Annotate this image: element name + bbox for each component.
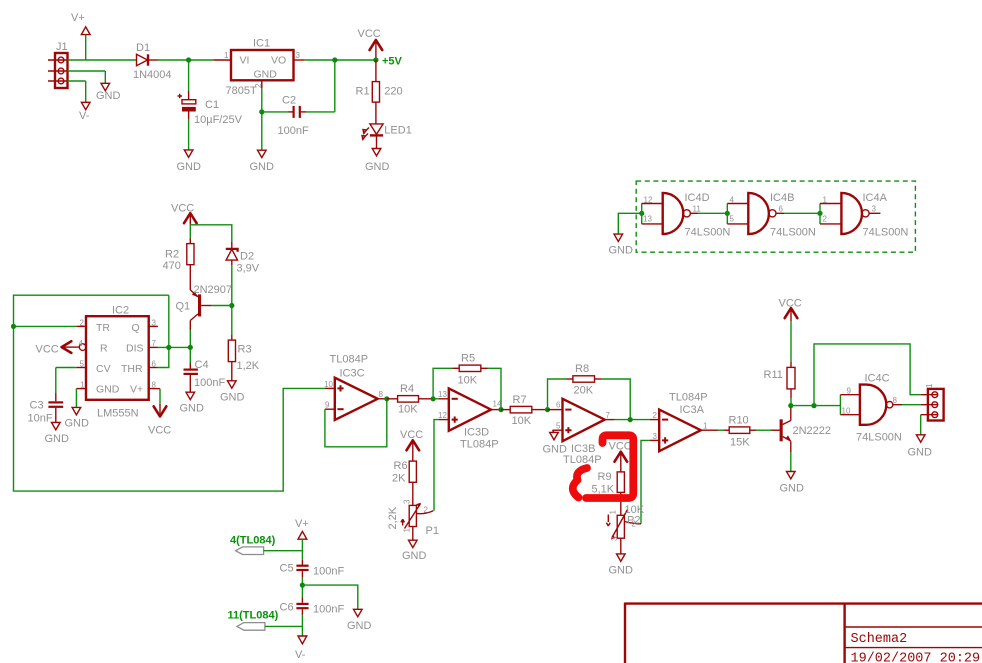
ground GND bottom mid: [347, 609, 372, 632]
svg-text:15K: 15K: [730, 437, 750, 449]
ground GND under C1: [177, 150, 202, 173]
wire IC1 output to +5V node: [305, 59, 376, 61]
svg-text:C3: C3: [30, 400, 44, 412]
svg-text:7: 7: [152, 339, 157, 348]
svg-text:100nF: 100nF: [313, 604, 344, 616]
node junction loop tap: [811, 403, 816, 408]
svg-text:IC2: IC2: [112, 305, 129, 317]
svg-text:TR: TR: [96, 322, 110, 334]
svg-text:V+: V+: [71, 12, 85, 24]
svg-text:9: 9: [847, 387, 852, 396]
resistor R5 10K feedback: [433, 353, 501, 410]
svg-text:8: 8: [152, 381, 157, 390]
svg-text:GND: GND: [96, 383, 120, 395]
svg-text:GND: GND: [250, 161, 275, 173]
svg-text:GND: GND: [254, 69, 278, 81]
svg-text:VO: VO: [271, 55, 286, 67]
potentiometer P1 2,2K: [387, 499, 439, 540]
svg-text:3: 3: [152, 319, 157, 328]
ground GND at connector pin3: [908, 415, 933, 459]
svg-text:IC4A: IC4A: [863, 192, 888, 204]
svg-text:THR: THR: [121, 363, 143, 375]
svg-text:6: 6: [779, 205, 784, 214]
resistor R10 15K: [711, 415, 780, 449]
capacitor C6 100nF: [280, 585, 345, 636]
resistor R2 470: [163, 239, 195, 290]
svg-text:GND: GND: [365, 161, 390, 173]
svg-text:GND: GND: [180, 403, 205, 415]
wire IC4D output to IC4B: [698, 212, 727, 214]
svg-text:3: 3: [296, 51, 301, 60]
svg-text:4: 4: [79, 339, 84, 348]
node junction C5/C6: [300, 583, 305, 588]
svg-text:74LS00N: 74LS00N: [770, 227, 816, 239]
op-amp IC3C TL084P: [324, 354, 387, 420]
wire V+ rail: [301, 539, 303, 560]
svg-text:C2: C2: [282, 95, 296, 107]
resistor R6 2K: [392, 460, 416, 505]
svg-text:IC4B: IC4B: [770, 192, 794, 204]
svg-text:10K: 10K: [398, 404, 418, 416]
svg-text:VCC: VCC: [358, 28, 381, 40]
svg-text:R9: R9: [598, 471, 612, 483]
wire D2 to base node and R3: [231, 265, 233, 335]
svg-text:R3: R3: [238, 344, 252, 356]
svg-text:V-: V-: [79, 110, 90, 122]
svg-text:6: 6: [556, 401, 561, 410]
node junction C2 riser: [332, 57, 337, 62]
svg-text:2: 2: [424, 506, 429, 515]
svg-text:3: 3: [610, 536, 619, 541]
svg-text:Schema2: Schema2: [851, 632, 908, 647]
svg-text:13: 13: [438, 390, 447, 399]
node junction R4/R5/pin13: [431, 396, 436, 401]
svg-text:V-: V-: [295, 649, 306, 661]
svg-text:10: 10: [324, 380, 333, 389]
node junction base of Q1: [229, 303, 234, 308]
svg-text:4: 4: [730, 196, 735, 205]
resistor R3 1,2K: [228, 335, 259, 381]
svg-text:74LS00N: 74LS00N: [856, 432, 902, 444]
wire pin1 J1 to V+ and D1: [68, 35, 137, 60]
dashed net class box: [636, 181, 915, 252]
node junction IC4B inputs: [725, 211, 730, 216]
svg-text:Q: Q: [132, 322, 140, 334]
supply VCC above R6: [400, 429, 423, 461]
svg-text:GND: GND: [402, 550, 427, 562]
svg-text:GND: GND: [45, 433, 70, 445]
svg-text:IC3C: IC3C: [340, 368, 365, 380]
svg-text:3: 3: [403, 499, 412, 504]
label flag 4(TL084): [230, 535, 302, 555]
svg-text:IC3A: IC3A: [680, 404, 705, 416]
svg-text:2K: 2K: [392, 473, 406, 485]
svg-text:10µF/25V: 10µF/25V: [194, 114, 243, 126]
svg-text:11: 11: [693, 205, 702, 214]
svg-text:7: 7: [606, 411, 611, 420]
svg-text:GND: GND: [96, 90, 121, 102]
svg-text:IC4D: IC4D: [685, 192, 710, 204]
svg-text:R10: R10: [729, 415, 749, 427]
svg-text:GND: GND: [780, 483, 805, 495]
svg-text:5,1K: 5,1K: [592, 484, 615, 496]
capacitor C3 10nF: [28, 393, 64, 425]
svg-text:LED1: LED1: [384, 125, 412, 137]
wire mid node to GND: [302, 585, 357, 609]
svg-text:R6: R6: [394, 460, 408, 472]
node junction IC4A inputs: [817, 211, 822, 216]
capacitor C1 10uF/25V: [178, 60, 243, 150]
svg-text:C5: C5: [280, 563, 294, 575]
wire net loop left (TR feedback): [14, 295, 325, 491]
svg-text:1: 1: [224, 51, 229, 60]
svg-text:R1: R1: [356, 86, 370, 98]
ground GND under Q2 emitter: [780, 472, 805, 495]
svg-text:11(TL084): 11(TL084): [228, 610, 279, 622]
transistor Q1 2N2907: [176, 284, 233, 330]
red marker annotation around R9: [573, 435, 634, 498]
svg-text:5: 5: [556, 422, 561, 431]
svg-text:GND: GND: [609, 565, 634, 577]
svg-text:3,9V: 3,9V: [237, 263, 260, 275]
svg-text:3: 3: [653, 432, 658, 441]
svg-text:D2: D2: [240, 251, 254, 263]
svg-text:R5: R5: [461, 353, 475, 365]
svg-text:100nF: 100nF: [278, 125, 309, 137]
svg-text:Q1: Q1: [176, 301, 191, 313]
svg-text:10K: 10K: [458, 375, 478, 387]
capacitor C5 100nF: [280, 560, 345, 585]
wire IC3A pin3 to P2 wiper: [641, 440, 650, 523]
resistor R11: [764, 321, 796, 406]
svg-text:1: 1: [925, 383, 934, 388]
timer IC2 LM555N: [76, 305, 160, 420]
wire THR riser: [158, 295, 169, 367]
wire CV to C3: [56, 368, 77, 394]
wire collector node to IC4C inputs: [791, 395, 841, 415]
nand gate IC4C 74LS00N: [840, 373, 902, 444]
resistor R8 20K feedback: [548, 363, 631, 420]
svg-text:LM555N: LM555N: [97, 408, 139, 420]
svg-text:TL084P: TL084P: [669, 392, 708, 404]
supply VCC at +5V: [358, 28, 383, 59]
wire IC1 pin2 down to C2 node: [261, 89, 263, 150]
svg-text:4(TL084): 4(TL084): [230, 535, 276, 547]
node junction IC4D inputs: [639, 211, 644, 216]
node junction IC3C output: [384, 396, 389, 401]
svg-text:5: 5: [730, 215, 735, 224]
svg-text:1: 1: [703, 422, 708, 431]
svg-text:C6: C6: [280, 602, 294, 614]
svg-text:1: 1: [80, 381, 85, 390]
ground GND under IC1: [250, 150, 275, 173]
svg-text:C1: C1: [205, 99, 219, 111]
wire IC3B output to IC3A pin2: [614, 419, 650, 421]
supply VCC above R11: [779, 298, 802, 322]
svg-text:1: 1: [609, 510, 618, 515]
svg-text:DIS: DIS: [126, 342, 144, 354]
node junction IC3B output/R8: [628, 417, 633, 422]
svg-text:GND: GND: [220, 392, 245, 404]
potentiometer P2 10K: [606, 504, 644, 554]
capacitor C2 100nF: [262, 60, 335, 137]
op-amp IC3D TL084P: [438, 388, 502, 450]
supply V+: [71, 12, 90, 35]
svg-text:2N2907: 2N2907: [194, 284, 233, 296]
svg-text:13: 13: [643, 215, 652, 224]
ground GND at IC2 pin1: [65, 389, 90, 430]
svg-text:R11: R11: [764, 369, 783, 381]
node junction TR tap: [11, 324, 16, 329]
wire VCC to R2 and D2: [190, 225, 232, 243]
svg-text:9: 9: [325, 401, 330, 410]
connector J1: [48, 41, 68, 88]
ground GND under R3: [220, 381, 245, 404]
svg-text:1: 1: [823, 196, 828, 205]
op-amp IC3A TL084P: [650, 392, 711, 452]
ground GND J1 pin2: [68, 71, 121, 102]
svg-text:VCC: VCC: [400, 429, 423, 441]
svg-text:1: 1: [403, 528, 412, 533]
svg-text:P1: P1: [426, 525, 439, 537]
svg-text:CV: CV: [96, 363, 111, 375]
svg-text:8: 8: [893, 396, 898, 405]
diode D1 1N4004: [133, 42, 172, 81]
svg-text:2N2222: 2N2222: [793, 425, 832, 437]
svg-text:5: 5: [80, 360, 85, 369]
svg-text:IC1: IC1: [253, 38, 270, 50]
wire DIS net: [158, 346, 190, 348]
wire Q1 collector to DIS node: [189, 330, 191, 347]
svg-text:74LS00N: 74LS00N: [863, 227, 909, 239]
svg-text:74LS00N: 74LS00N: [685, 227, 731, 239]
svg-text:R8: R8: [575, 363, 589, 375]
wire pin12 to P1 wiper: [434, 420, 439, 511]
LED LED1: [362, 124, 412, 149]
supply V+ bottom: [295, 518, 309, 539]
svg-text:VCC: VCC: [779, 298, 802, 310]
svg-text:J1: J1: [56, 41, 68, 53]
node junction DIS/THR: [166, 345, 171, 350]
ground GND under P1: [402, 540, 427, 562]
svg-text:12: 12: [438, 411, 447, 420]
svg-text:GND: GND: [347, 620, 372, 632]
resistor R4 10K: [387, 383, 433, 416]
svg-text:100nF: 100nF: [194, 377, 225, 389]
node junction collector: [788, 403, 793, 408]
svg-text:IC4C: IC4C: [865, 373, 890, 385]
wire R4 node to pin13: [433, 398, 439, 400]
svg-text:2: 2: [653, 411, 658, 420]
svg-text:GND: GND: [609, 245, 634, 257]
svg-text:TL084P: TL084P: [563, 454, 602, 466]
wire loop to connector pin1: [814, 344, 921, 406]
capacitor C4 100nF: [184, 347, 226, 392]
svg-text:VCC: VCC: [171, 203, 194, 215]
wire TR to IC2 pin2: [14, 325, 77, 327]
wire IC4B output to IC4A: [784, 212, 820, 214]
supply VCC at IC2 reset pin4: [36, 341, 77, 355]
svg-text:VCC: VCC: [36, 344, 59, 356]
svg-text:GND: GND: [908, 447, 933, 459]
resistor R1 220: [356, 60, 403, 124]
svg-text:2: 2: [80, 319, 85, 328]
wire IC3C feedback: [325, 399, 387, 447]
ground GND at IC3B pin5: [543, 430, 568, 455]
svg-text:GND: GND: [177, 161, 202, 173]
title block frame: [625, 603, 982, 663]
svg-text:TL084P: TL084P: [330, 354, 369, 366]
svg-text:100nF: 100nF: [313, 566, 344, 578]
nand gate IC4D 74LS00N: [642, 192, 731, 239]
op-amp IC3B TL084P: [548, 399, 615, 466]
regulator IC1 7805T: [214, 38, 305, 98]
svg-text:R: R: [100, 342, 108, 354]
svg-text:V+: V+: [295, 518, 309, 530]
ground GND at IC4D inputs: [609, 213, 642, 256]
ground GND under P2: [609, 554, 634, 577]
svg-text:GND: GND: [543, 444, 568, 456]
svg-text:+5V: +5V: [382, 56, 403, 68]
svg-text:R7: R7: [513, 394, 527, 406]
supply VCC above R2: [171, 203, 197, 225]
svg-text:VCC: VCC: [609, 441, 632, 453]
connector X1 output: [921, 383, 944, 421]
transistor Q2 2N2222: [780, 406, 831, 472]
supply VCC at IC2 pin8: [148, 389, 171, 437]
svg-text:GND: GND: [65, 418, 90, 430]
svg-text:V+: V+: [130, 383, 143, 395]
svg-text:TL084P: TL084P: [460, 439, 499, 451]
supply V- bottom: [295, 636, 307, 661]
svg-text:IC3D: IC3D: [464, 427, 489, 439]
nand gate IC4A 74LS00N: [820, 192, 908, 239]
svg-text:19/02/2007 20:29: 19/02/2007 20:29: [851, 652, 981, 663]
svg-text:1,2K: 1,2K: [237, 360, 260, 372]
svg-text:3: 3: [872, 205, 877, 214]
resistor R9 5,1K: [592, 471, 625, 515]
resistor R7 10K: [501, 394, 548, 427]
svg-text:10K: 10K: [512, 415, 532, 427]
node junction R7/R8/pin6: [545, 407, 550, 412]
svg-text:10nF: 10nF: [28, 413, 53, 425]
svg-text:220: 220: [384, 86, 402, 98]
node junction at IC1 gnd / C2: [259, 109, 264, 114]
svg-text:VCC: VCC: [148, 425, 171, 437]
ground GND under C4: [180, 392, 205, 414]
svg-text:10: 10: [842, 407, 851, 416]
svg-text:D1: D1: [136, 42, 150, 54]
svg-text:470: 470: [163, 260, 181, 272]
node +5V net label: [373, 56, 402, 68]
node junction DIS/C4: [188, 345, 193, 350]
label flag 11(TL084): [228, 610, 303, 631]
ground GND under C3: [45, 422, 70, 445]
svg-text:C4: C4: [195, 359, 209, 371]
svg-text:8: 8: [379, 390, 384, 399]
svg-text:R2: R2: [165, 249, 179, 261]
node junction at C1: [186, 57, 191, 62]
svg-text:1N4004: 1N4004: [133, 69, 172, 81]
svg-text:2,2K: 2,2K: [387, 506, 399, 529]
svg-text:7805T: 7805T: [226, 85, 257, 97]
node junction IC3D output: [498, 407, 503, 412]
svg-text:2: 2: [823, 215, 828, 224]
zener diode D2 3,9V: [226, 242, 260, 275]
svg-text:20K: 20K: [574, 385, 594, 397]
supply VCC above R9: [609, 441, 632, 472]
svg-text:6: 6: [152, 360, 157, 369]
wire IC4C output to connector: [902, 404, 921, 406]
wire D1 to IC1: [158, 59, 214, 61]
svg-text:12: 12: [644, 196, 653, 205]
svg-text:P2: P2: [627, 515, 640, 527]
nand gate IC4B 74LS00N: [727, 192, 816, 239]
svg-text:2: 2: [254, 83, 263, 88]
supply V- J1 pin3: [68, 81, 91, 122]
svg-text:R4: R4: [400, 383, 414, 395]
svg-text:VI: VI: [240, 55, 250, 67]
ground GND under LED1: [365, 149, 390, 174]
